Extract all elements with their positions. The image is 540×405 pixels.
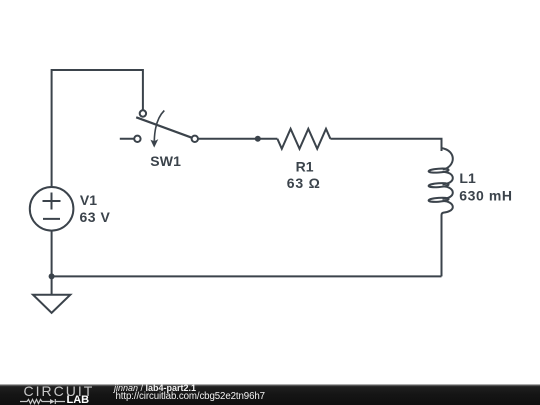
svg-text:63 Ω: 63 Ω — [287, 175, 321, 191]
node: ground junction — [49, 273, 55, 279]
wire: V1 bottom to ground node — [51, 231, 53, 295]
resistor R1 — [277, 129, 330, 149]
wire: switch right to resistor — [198, 138, 278, 140]
logo resistor-diode glyph — [20, 399, 65, 403]
CircuitLab logo — [24, 384, 95, 398]
wire: switch left stub — [120, 138, 138, 140]
wire: bottom rail — [52, 275, 442, 277]
wire: resistor right to inductor top corner — [330, 139, 441, 151]
switch SW1 actuation arrow — [154, 111, 164, 141]
svg-text:L1: L1 — [459, 170, 476, 186]
svg-text:630 mH: 630 mH — [459, 188, 512, 204]
node: switch-resistor junction — [255, 136, 261, 142]
footer bar — [0, 384, 540, 405]
switch SW1 left terminal — [134, 136, 140, 142]
svg-text:63 V: 63 V — [80, 209, 111, 225]
labels — [80, 153, 513, 225]
wire top-left loop: V1 top to switch — [52, 70, 143, 187]
switch SW1 top terminal — [140, 110, 146, 116]
switch SW1 blade — [136, 117, 195, 139]
inductor L1 coil — [442, 139, 453, 169]
logo LAB — [67, 395, 90, 405]
ground — [33, 295, 70, 313]
switch SW1 right terminal — [192, 136, 198, 142]
credit line 2 — [116, 392, 265, 402]
voltage source V1 — [30, 187, 74, 231]
svg-text:SW1: SW1 — [150, 153, 181, 169]
svg-text:R1: R1 — [296, 159, 314, 175]
credit line 1 — [114, 384, 196, 393]
svg-text:V1: V1 — [80, 192, 97, 208]
